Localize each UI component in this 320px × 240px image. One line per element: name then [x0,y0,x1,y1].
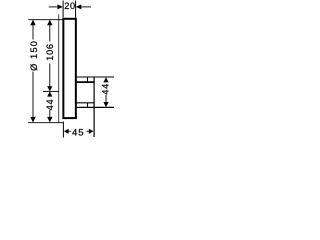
20 right extension line [75,1,77,18]
44 left bottom arrow [47,117,52,123]
45 left extension line [62,122,64,138]
44 right dim line seg [105,95,107,102]
dia150 top arrow [30,20,35,26]
20 left extension line [62,1,64,18]
handle top line + extension [76,76,114,78]
20 dim left tail [49,6,58,8]
handle flange step lower [87,103,89,108]
svg-text:45: 45 [72,127,85,138]
mid-left extension line [43,90,59,92]
svg-text:106: 106 [45,43,55,60]
dia150 bottom arrow [30,117,35,123]
106 dim line lower seg [49,64,51,87]
106 top arrow [47,20,52,26]
handle front edge + 45 right extension [93,77,95,137]
44 right bottom arrow [103,102,108,107]
top-left extension line [28,19,62,21]
handle bottom line + extension [76,106,114,108]
svg-text:44: 44 [101,83,111,95]
svg-text:Ø 150: Ø 150 [29,40,39,71]
svg-text:20: 20 [64,1,76,11]
106 bottom arrow (hourglass upper) [47,86,52,91]
bottom-left extension line [28,122,63,124]
20 dim right arrow [76,4,82,9]
dia150 dim line upper seg [32,25,34,40]
44 right top arrow [103,77,108,82]
45 left arrow [64,129,69,134]
handle grip bottom line [77,102,95,104]
20 dim right tail [82,6,92,8]
106 dim line upper seg [49,25,51,42]
45 right arrow [89,129,94,134]
handle grip top thick line [77,81,95,83]
44 left top arrow (hourglass lower) [47,91,52,96]
handle flange step upper [87,77,89,82]
44 left dim line seg [49,110,51,118]
20 dim left arrow [57,4,63,9]
wall line [58,14,60,122]
plate body rectangle [63,19,76,118]
svg-text:44: 44 [45,99,55,111]
dia150 dim line lower seg [32,72,34,119]
